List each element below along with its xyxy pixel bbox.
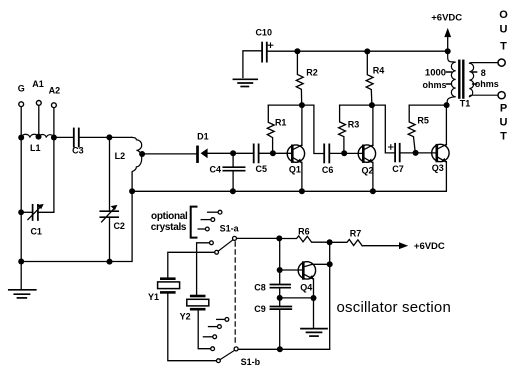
wire Y1 bottom to S1-b [168, 293, 217, 361]
node: L1 left junction [18, 135, 24, 141]
capacitor C3 [72, 129, 84, 156]
svg-text:1000: 1000 [425, 68, 446, 79]
node: Q3 collector / T1 bottom junction [444, 102, 450, 108]
node: C2 bottom on rail [107, 259, 113, 265]
node: Q4 collector junction [327, 261, 333, 267]
node: R4 top on +6V rail [364, 48, 370, 54]
label OUTPUT [499, 9, 508, 143]
svg-text:T: T [500, 130, 507, 142]
node: R6/R7 junction [327, 239, 333, 245]
ground (C10) [233, 79, 257, 86]
node: C1 left tap on G line [18, 209, 24, 215]
wire A2 vertical then into C1 right lead [38, 108, 54, 213]
svg-text:+6VDC: +6VDC [431, 13, 462, 24]
terminal A2 [49, 85, 61, 107]
svg-text:S1-b: S1-b [241, 357, 261, 367]
label 8 ohms [475, 68, 499, 89]
wire S1-a pole to oscillator [237, 237, 280, 239]
node: R2 top on +6V rail [294, 48, 300, 54]
ground (Q4 emitter) [301, 329, 327, 337]
svg-text:Q3: Q3 [432, 163, 444, 173]
transformer T1 primary [447, 51, 456, 105]
capacitor C7 polarized [389, 144, 404, 174]
svg-text:ohms: ohms [475, 79, 499, 89]
resistor R6 [279, 227, 329, 243]
switch S1-b contact Y2 [211, 347, 215, 351]
svg-text:C8: C8 [254, 283, 266, 293]
wire C7 to Q3 base [400, 152, 437, 154]
svg-text:T: T [500, 41, 507, 53]
inductor L1 [21, 134, 54, 153]
switch S1-a crystal stub 3 [198, 228, 205, 230]
crystal Y1 [148, 279, 180, 302]
wire C2 bottom lead [109, 217, 111, 261]
node: Q4 base tap [277, 267, 283, 273]
node: R5 bottom / Q3 base [413, 150, 419, 156]
wire R5 top to Q3 collector node [409, 104, 446, 106]
svg-text:C1: C1 [30, 226, 42, 236]
wire R6 junction down to Q4 collector and S1-b line [329, 242, 331, 349]
transistor Q4 [298, 262, 330, 328]
wire Q4 base [280, 269, 304, 271]
capacitor C4 [210, 153, 245, 191]
transformer T1 core [459, 61, 463, 98]
wire C2 top lead [109, 137, 111, 211]
variable capacitor C2 [100, 205, 125, 231]
capacitor C6 [322, 144, 334, 175]
+6VDC supply arrow (top) [431, 13, 462, 52]
svg-text:R4: R4 [373, 66, 385, 76]
switch S1-a contact to Y2 [210, 241, 214, 245]
wire R3 top to Q2 collector node [340, 104, 372, 106]
node: C8/C9 midpoint [277, 295, 283, 301]
wire C10 left to ground [243, 51, 262, 78]
node: C9 bottom / S1-b junction [277, 346, 283, 352]
node: L2 bottom on emitter rail [129, 188, 135, 194]
node: ground rail left junction [18, 259, 24, 265]
bracket optional crystals [191, 207, 197, 238]
svg-text:C9: C9 [254, 304, 266, 314]
svg-text:C3: C3 [72, 146, 84, 156]
output terminal top [498, 59, 505, 66]
switch S1-a contact to Y1 [215, 250, 219, 254]
crystal Y2 [180, 296, 209, 322]
capacitor C5 [254, 144, 267, 174]
wire C8/C9 chain vertical [279, 238, 281, 284]
switch S1-a crystal stub 1 [208, 211, 218, 213]
svg-text:R5: R5 [417, 116, 429, 126]
svg-text:optional: optional [151, 211, 188, 222]
switch S1-b crystal stub 1 [217, 318, 225, 320]
wire C5 to Q1 base [259, 152, 292, 154]
switch S1-a pole and arm [233, 236, 237, 240]
ground (left) [9, 262, 36, 298]
node: L2 tap junction [139, 151, 145, 157]
svg-text:Q4: Q4 [300, 282, 312, 292]
resistor R2 [296, 51, 317, 105]
wire C8 to C9 [279, 288, 281, 307]
wire L2 bottom lead [131, 172, 133, 191]
node: D1/C4/C5 junction [230, 150, 236, 156]
transistor Q2 [358, 105, 375, 191]
node: A1 tap junction [36, 134, 42, 140]
node: Q1 collector junction [299, 102, 305, 108]
svg-text:C7: C7 [392, 164, 404, 174]
wire A1 stub [38, 106, 40, 137]
wire +6V top rail [267, 50, 448, 52]
switch S1-b crystal stub 2 [209, 326, 217, 328]
resistor R5 [408, 105, 429, 153]
wire emitter rail [132, 162, 446, 192]
svg-text:L2: L2 [115, 151, 126, 161]
node: Q2 emitter on rail [370, 188, 376, 194]
wire Y2 bottom to S1-b [198, 310, 210, 349]
wire bottom-left rail [21, 191, 132, 261]
svg-text:R2: R2 [306, 68, 318, 78]
wire Q1 collector node to C6 [302, 105, 324, 153]
capacitor C8 [254, 283, 290, 293]
switch gang dashed link [234, 242, 236, 345]
node: R3 bottom / Q2 base [341, 150, 347, 156]
svg-text:O: O [499, 9, 508, 21]
svg-text:Y1: Y1 [148, 292, 159, 302]
svg-text:Y2: Y2 [180, 312, 191, 322]
switch S1-b crystal stub 3 [203, 336, 212, 338]
svg-text:S1-a: S1-a [220, 224, 240, 234]
svg-text:Q1: Q1 [289, 164, 301, 174]
wire A2 node to C3 [54, 136, 74, 138]
wire G vertical [20, 107, 22, 262]
svg-text:A2: A2 [49, 85, 61, 95]
node: +6VDC / T1 top junction [445, 48, 451, 54]
svg-text:U: U [500, 116, 508, 128]
switch S1-b contact Y1 [217, 359, 221, 363]
output terminal bottom [498, 92, 505, 99]
node: R1 bottom / Q1 base [270, 150, 276, 156]
svg-text:D1: D1 [197, 132, 209, 142]
node: C4 bottom on emitter rail [230, 188, 236, 194]
svg-text:A1: A1 [32, 79, 44, 89]
svg-text:P: P [500, 103, 507, 115]
resistor R1 [267, 105, 286, 153]
wire C3 to L2 junction [79, 136, 132, 138]
capacitor C10 [255, 27, 272, 61]
node: Q2 collector junction [369, 102, 375, 108]
svg-text:Q2: Q2 [361, 165, 373, 175]
resistor R7 [330, 229, 402, 246]
terminal G [18, 84, 25, 107]
wire C6 to Q2 base [329, 152, 363, 154]
transformer T1 secondary [460, 63, 498, 109]
svg-text:oscillator section: oscillator section [337, 299, 451, 316]
node: Q1 emitter on rail [299, 188, 305, 194]
svg-text:C5: C5 [256, 164, 268, 174]
svg-text:crystals: crystals [151, 222, 187, 233]
svg-text:+6VDC: +6VDC [414, 241, 445, 252]
wire R1 top to Q1 collector node [268, 104, 302, 106]
wire S1-b pole to C9 bottom node [238, 348, 330, 350]
wire L2 tap to D1 [140, 153, 196, 155]
capacitor C9 [254, 304, 291, 314]
svg-text:T1: T1 [460, 99, 471, 109]
wire C9 bottom [279, 309, 281, 349]
node: L1 right / A2 junction [51, 135, 57, 141]
transistor Q1 [287, 105, 304, 191]
+6VDC arrow (oscillator) [399, 241, 445, 252]
svg-text:R7: R7 [350, 229, 362, 239]
svg-text:R3: R3 [348, 120, 360, 130]
svg-text:L1: L1 [30, 143, 41, 153]
svg-text:R1: R1 [275, 118, 287, 128]
label 1000 ohms [422, 68, 446, 91]
svg-text:C4: C4 [210, 165, 222, 175]
wire Q2 collector node to C7 [372, 105, 395, 153]
svg-text:C6: C6 [322, 165, 334, 175]
node: Q4 emitter junction [311, 295, 317, 301]
svg-text:C10: C10 [255, 27, 272, 37]
svg-text:R6: R6 [298, 227, 310, 237]
label optional crystals [151, 211, 188, 233]
terminal A1 [32, 79, 44, 105]
switch S1-a crystal stub 2 [201, 219, 210, 221]
diode D1 [197, 132, 209, 162]
svg-text:G: G [18, 84, 25, 94]
wire D1 to C5 [208, 152, 254, 154]
resistor R4 [366, 52, 384, 106]
svg-text:U: U [500, 24, 508, 36]
inductor L2 [115, 137, 142, 171]
node: C3/C2/L2 junction [106, 134, 112, 140]
resistor R3 [339, 105, 360, 153]
svg-text:C2: C2 [113, 221, 125, 231]
transistor Q3 [432, 105, 449, 173]
variable capacitor C1 [21, 204, 44, 236]
switch S1-b pole and arm [234, 347, 238, 351]
wire midpoint to Q4 emitter [280, 297, 314, 299]
node: S1-a wire / R6 junction [276, 235, 282, 241]
svg-text:ohms: ohms [422, 80, 446, 90]
svg-text:8: 8 [481, 68, 486, 78]
